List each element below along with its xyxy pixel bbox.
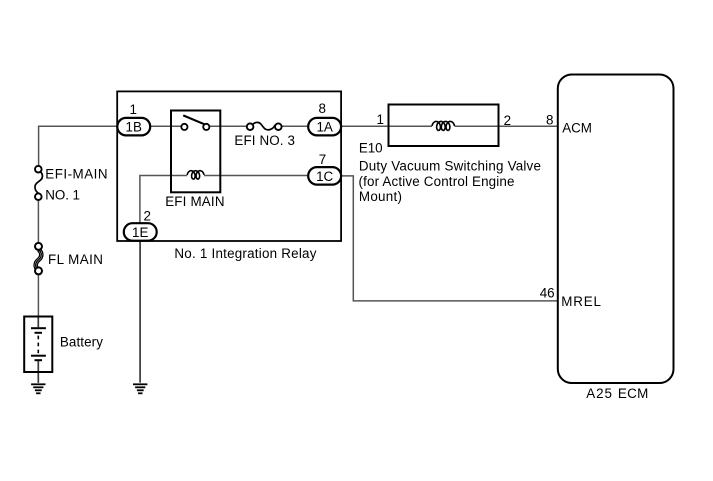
svg-text:FL MAIN: FL MAIN: [48, 252, 103, 267]
svg-text:Battery: Battery: [60, 335, 103, 350]
svg-text:MREL: MREL: [561, 294, 601, 309]
svg-text:1B: 1B: [126, 120, 142, 135]
svg-text:ECM: ECM: [618, 386, 648, 401]
svg-text:Mount): Mount): [359, 189, 402, 204]
svg-text:1: 1: [377, 112, 384, 127]
svg-text:EFI NO. 3: EFI NO. 3: [234, 133, 295, 148]
svg-text:8: 8: [546, 113, 553, 128]
svg-text:1C: 1C: [316, 169, 333, 184]
svg-text:2: 2: [504, 113, 511, 128]
svg-text:(for Active Control Engine: (for Active Control Engine: [359, 174, 515, 189]
svg-text:46: 46: [540, 286, 555, 301]
svg-text:No. 1 Integration Relay: No. 1 Integration Relay: [174, 246, 316, 261]
svg-text:EFI MAIN: EFI MAIN: [165, 194, 224, 209]
svg-text:ACM: ACM: [562, 121, 592, 136]
svg-text:1E: 1E: [132, 225, 148, 240]
svg-text:2: 2: [143, 208, 150, 223]
svg-text:8: 8: [318, 101, 325, 116]
svg-text:E10: E10: [359, 141, 383, 156]
svg-text:Duty Vacuum Switching Valve: Duty Vacuum Switching Valve: [359, 159, 541, 174]
svg-text:NO. 1: NO. 1: [45, 188, 80, 203]
svg-text:7: 7: [319, 152, 326, 167]
svg-text:1A: 1A: [316, 120, 332, 135]
svg-text:A25: A25: [586, 386, 612, 401]
svg-text:EFI-MAIN: EFI-MAIN: [45, 167, 107, 182]
svg-text:1: 1: [129, 102, 136, 117]
